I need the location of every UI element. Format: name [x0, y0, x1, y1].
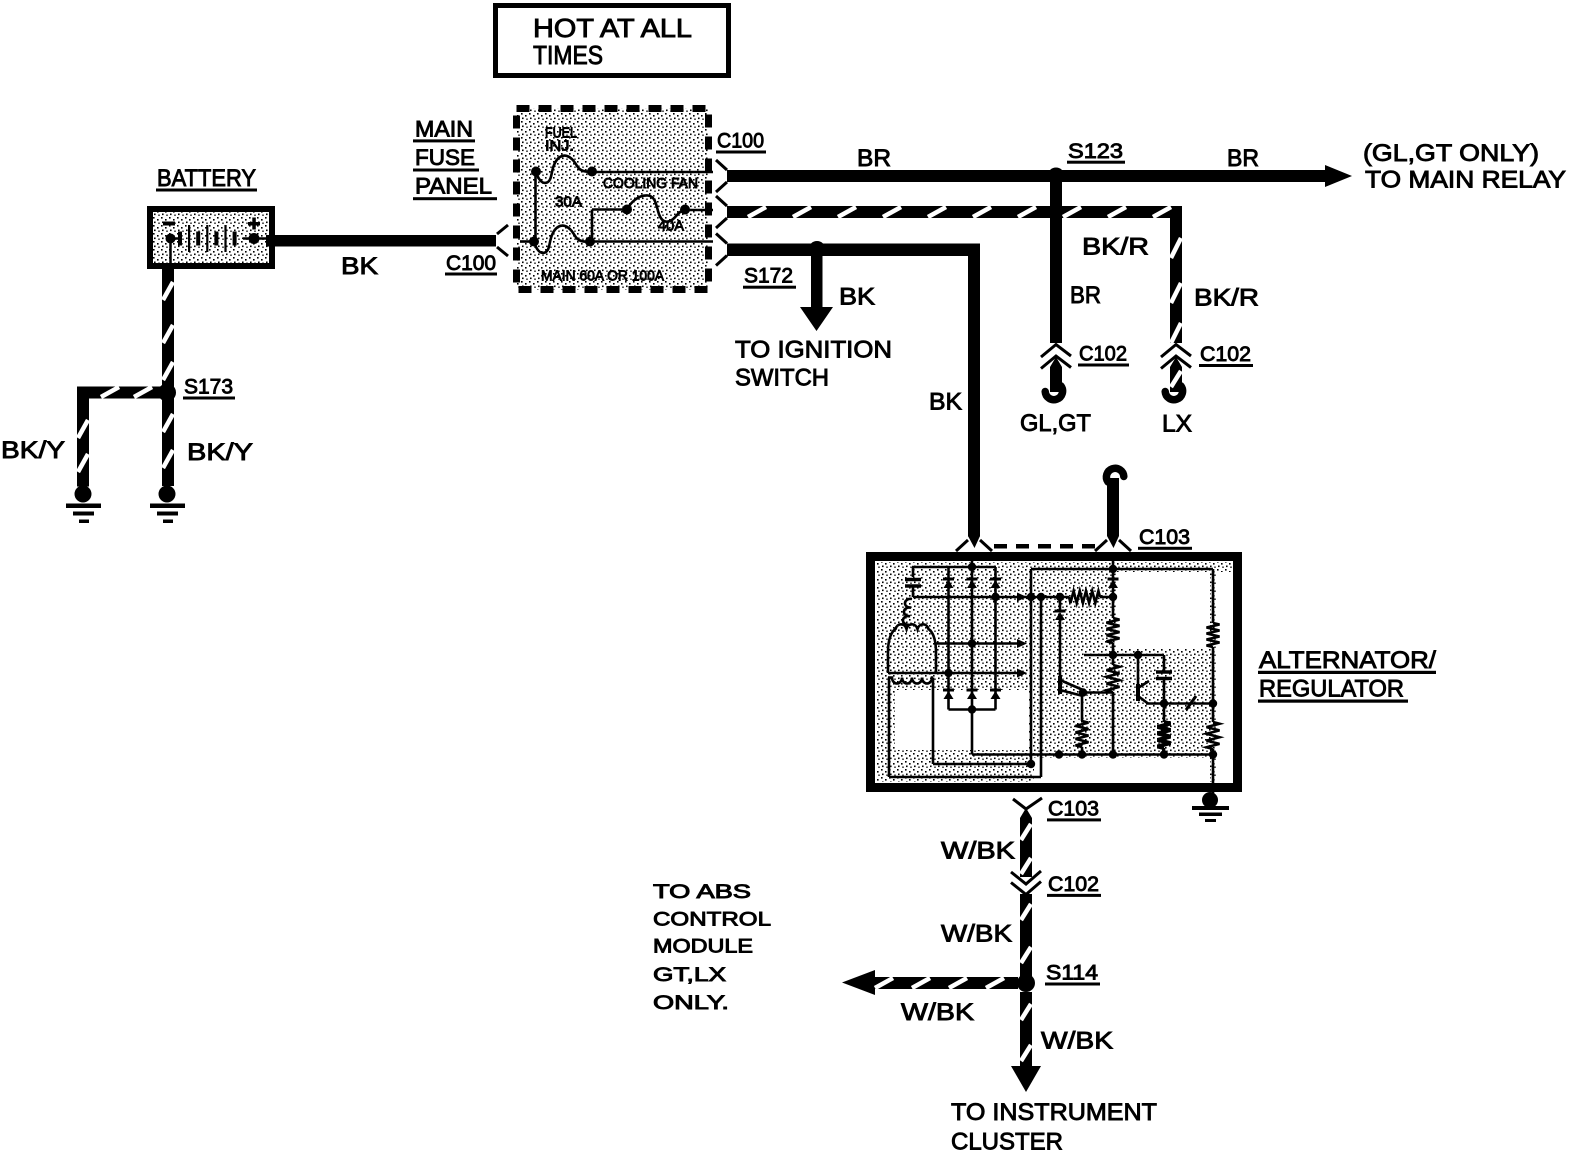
svg-text:BK: BK	[341, 253, 378, 280]
capacitor C2	[1163, 655, 1166, 671]
diode vertical V2	[947, 567, 950, 710]
battery plus sign	[248, 222, 260, 226]
resistor R6	[1207, 722, 1220, 749]
regulator input line V4	[1112, 561, 1115, 618]
capacitor C1	[912, 567, 915, 577]
resistor R3	[1207, 623, 1220, 647]
resistor R1 horizontal	[1069, 591, 1100, 603]
svg-text:ALTERNATOR/: ALTERNATOR/	[1259, 647, 1436, 674]
wire BK/R below C102	[1170, 357, 1182, 392]
resistor R4 line	[1081, 693, 1084, 722]
svg-text:30A: 30A	[555, 194, 582, 211]
mid line	[1084, 654, 1164, 657]
diodes D1-D7	[943, 579, 1119, 699]
alternator/regulator box	[871, 557, 1238, 788]
connector chevrons C103 top	[956, 540, 1131, 551]
svg-text:(GL,GT ONLY): (GL,GT ONLY)	[1363, 140, 1539, 167]
wire W/BK arrow to ABS	[872, 977, 1018, 989]
ground G2 right	[159, 486, 176, 503]
svg-text:BR: BR	[857, 145, 891, 172]
svg-text:MODULE: MODULE	[653, 937, 753, 958]
wire BR below C102	[1050, 357, 1062, 392]
svg-text:PANEL: PANEL	[415, 174, 492, 199]
svg-text:CLUSTER: CLUSTER	[951, 1129, 1063, 1152]
svg-text:W/BK: W/BK	[941, 838, 1015, 865]
svg-text:REGULATOR: REGULATOR	[1259, 676, 1404, 703]
svg-text:MAIN: MAIN	[415, 117, 473, 142]
field coil	[888, 678, 933, 684]
svg-text:SWITCH: SWITCH	[735, 365, 829, 392]
battery terminal dot negative	[166, 234, 176, 244]
bottom bus	[972, 753, 1213, 756]
hook arrow continuation (top)	[1106, 468, 1123, 482]
fuse F3 MAIN 60A OR 100A	[534, 226, 590, 253]
wire field left leg	[888, 678, 891, 778]
svg-text:BATTERY: BATTERY	[157, 165, 256, 192]
svg-text:TO INSTRUMENT: TO INSTRUMENT	[951, 1099, 1157, 1126]
inductor L1	[903, 599, 912, 625]
diode vertical V1	[971, 561, 974, 710]
svg-text:BK/Y: BK/Y	[187, 439, 253, 466]
svg-text:GL,GT: GL,GT	[1020, 410, 1091, 437]
fuse F2 COOLING FAN 40A	[627, 195, 685, 221]
battery terminal dot positive	[249, 233, 260, 244]
svg-text:BK/R: BK/R	[1194, 285, 1259, 312]
splice S172 dot	[809, 241, 826, 258]
diode D7 slash	[1186, 696, 1196, 710]
white patches inside alternator	[895, 690, 1029, 750]
svg-text:W/BK: W/BK	[1041, 1028, 1113, 1055]
svg-text:C102: C102	[1200, 343, 1251, 366]
wire rail3	[913, 596, 1069, 599]
connector chevron C100 battery side	[497, 225, 508, 256]
hot-at-all-times box	[496, 6, 729, 76]
wire field right leg	[932, 678, 935, 765]
line to Q1	[1059, 597, 1062, 610]
resistor R5	[1158, 722, 1171, 748]
splice S173 dot	[158, 384, 176, 402]
resistor R2b	[1107, 665, 1120, 692]
diode vertical V3	[994, 567, 997, 710]
diode bridge bottom bus	[949, 708, 996, 711]
svg-text:S123: S123	[1068, 140, 1123, 163]
regulator sub-box	[1031, 568, 1213, 571]
wire BR vertical S123 to C102	[1050, 176, 1062, 343]
svg-text:W/BK: W/BK	[941, 921, 1012, 948]
connector C102 (BK/R wire) chevrons	[1161, 345, 1191, 369]
svg-text:BK: BK	[929, 389, 962, 416]
svg-text:COOLING FAN: COOLING FAN	[603, 175, 698, 192]
svg-text:BK/Y: BK/Y	[1, 437, 65, 464]
fuse F1 FUEL INJ 30A	[536, 156, 592, 183]
transistor Q1	[1058, 676, 1062, 694]
connection arrowheads into regulator	[1017, 593, 1027, 602]
connector C102 (BR wire) chevrons	[1041, 345, 1071, 369]
svg-text:S172: S172	[744, 265, 793, 288]
svg-text:MAIN 60A OR 100A: MAIN 60A OR 100A	[541, 268, 664, 285]
hatch slashes BK/R	[748, 207, 1181, 343]
resistor R2	[1107, 618, 1120, 643]
wire rail5	[888, 672, 1018, 675]
fuse internal wiring	[520, 172, 713, 242]
battery cell plates	[171, 225, 268, 263]
arrow to ignition switch	[811, 256, 823, 309]
dashed border segment at alternator top	[994, 544, 1095, 549]
wire rail1	[912, 566, 996, 569]
wire BR fuse panel to main relay	[727, 170, 1327, 182]
battery minus sign	[163, 222, 175, 226]
wire W/BK C103 to C102	[1020, 808, 1032, 877]
wire BK/R hatched horizontal from fuse panel	[727, 206, 1182, 218]
svg-text:C100: C100	[446, 252, 496, 275]
wire W/BK C102 to S114	[1020, 894, 1032, 977]
svg-text:TIMES: TIMES	[533, 40, 603, 70]
wire rail4	[936, 642, 1018, 645]
svg-text:FUSE: FUSE	[415, 145, 475, 170]
wire BK/R vertical to C102	[1170, 206, 1182, 343]
ground G3 at alternator	[1202, 792, 1218, 808]
svg-text:HOT AT ALL: HOT AT ALL	[533, 13, 692, 43]
wire from GL,GT/LX pages into alternator C103	[1107, 478, 1119, 536]
hook arrow GL,GT continuation	[1045, 386, 1062, 400]
transistor Q2	[1137, 655, 1140, 700]
svg-text:ONLY.: ONLY.	[653, 993, 729, 1014]
svg-text:BK/R: BK/R	[1082, 234, 1149, 261]
stator winding	[888, 624, 936, 673]
line Q2 emitter bus	[1146, 702, 1213, 705]
main fuse panel dashed box	[517, 109, 709, 290]
wire BK/Y S173 left branch	[77, 387, 167, 399]
regulator right edge V10	[1212, 569, 1215, 623]
splice S123 dot	[1048, 168, 1065, 185]
svg-text:GT,LX: GT,LX	[653, 965, 726, 986]
wire BK/Y battery negative down	[162, 266, 174, 387]
wire BK fuse panel via S172 to alternator	[727, 244, 980, 257]
svg-text:C102: C102	[1048, 873, 1099, 896]
svg-text:TO ABS: TO ABS	[653, 882, 751, 903]
connector C102 chevrons (W/BK)	[1011, 871, 1041, 895]
svg-text:LX: LX	[1162, 411, 1192, 438]
battery B1 box	[150, 209, 272, 266]
svg-text:BR: BR	[1070, 282, 1101, 309]
svg-text:C103: C103	[1048, 798, 1099, 821]
wire BK battery to fuse panel	[266, 235, 496, 247]
taper into alternator C103	[968, 536, 980, 548]
svg-text:BK: BK	[839, 284, 875, 311]
connector chevron C103 bottom	[1013, 798, 1042, 809]
svg-text:W/BK: W/BK	[901, 999, 974, 1026]
junction dots alternator	[944, 563, 1217, 768]
svg-text:INJ.: INJ.	[545, 138, 574, 155]
svg-text:CONTROL: CONTROL	[653, 910, 771, 931]
svg-text:C100: C100	[717, 130, 764, 153]
svg-text:S114: S114	[1046, 962, 1098, 985]
ground G1 left	[75, 486, 92, 503]
connector chevrons C100 fuse panel side	[716, 160, 727, 266]
arrowhead to instrument cluster	[1011, 1066, 1041, 1092]
arrowhead to main relay	[1325, 165, 1352, 187]
wire W/BK S114 down	[1020, 992, 1032, 1069]
svg-text:BR: BR	[1227, 145, 1259, 172]
splice S114 dot	[1017, 974, 1035, 992]
svg-text:C102: C102	[1079, 343, 1127, 366]
svg-text:TO MAIN RELAY: TO MAIN RELAY	[1365, 167, 1566, 194]
svg-text:S173: S173	[184, 376, 233, 399]
wire BK/Y S173 down	[162, 398, 174, 486]
hook arrow LX continuation	[1165, 386, 1182, 400]
svg-text:TO IGNITION: TO IGNITION	[735, 337, 892, 364]
svg-text:C103: C103	[1139, 526, 1190, 549]
